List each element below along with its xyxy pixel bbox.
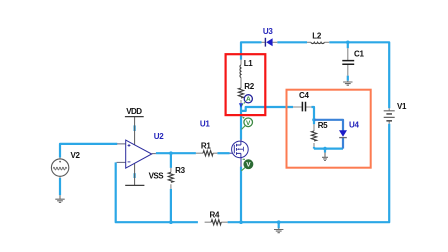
label R1 [201,141,211,150]
svg-text:R2: R2 [244,82,254,91]
label R2 [244,82,254,91]
probe A current [242,95,253,106]
diode U4 [339,130,347,137]
wire diode to L2 [277,41,307,43]
svg-text:V: V [246,162,251,169]
label V2 [71,151,81,160]
node C1 junction [346,41,350,45]
wire bottom ground stub [277,220,281,228]
svg-text:V: V [246,120,251,127]
label U2 [154,132,164,141]
svg-text:A: A [246,96,251,103]
resistor R1 [196,151,218,156]
svg-text:C4: C4 [299,91,309,100]
label VDD [126,107,142,116]
wire V2 plus to op-amp [60,144,117,158]
wire VSS overlay [134,173,136,178]
ground C1 [343,81,352,85]
inductor L2 [307,42,329,43]
svg-text:L2: L2 [312,31,322,40]
label C1 [354,49,364,58]
inductor L1 [240,60,241,88]
svg-text:L1: L1 [244,59,254,68]
probe arrow current direction [239,103,243,108]
VSS power rail [125,163,144,185]
wire drain node jog to C4 [241,107,293,111]
capacitor C1 [342,48,354,75]
resistor R4 [205,220,228,225]
wire op-amp output [156,152,196,154]
label U3 [263,27,273,36]
svg-text:R1: R1 [201,141,211,150]
wire ground stub orange box [324,149,326,153]
node output junction [169,151,173,155]
label U1 [200,120,210,129]
node R5 top junction [312,118,316,122]
probe V drain [242,117,253,130]
resistor R2 [238,78,243,105]
ground bottom rail [274,228,283,232]
label R5 [318,121,328,130]
wire U4 branch [314,120,343,149]
battery V1 [384,108,395,124]
wire C1 stub [347,42,349,81]
annotation orange box [287,90,371,168]
wire R3 branch [170,153,172,222]
svg-text:R3: R3 [175,166,185,175]
diode U3 [262,38,278,47]
label VSS [149,171,165,180]
label R4 [210,210,220,219]
wire L2 to top-right corner and V1 top [329,42,389,108]
label U4 [349,120,359,129]
label L2 [312,31,322,40]
wire feedback left vertical and bottom rail left [116,162,198,222]
label C4 [299,91,309,100]
svg-text:U4: U4 [349,120,359,129]
capacitor C4 [293,102,311,112]
probe V source [241,159,252,171]
wire top rail left corner [241,42,262,60]
node R3-rail junction [169,220,173,224]
label V1 [397,102,407,111]
svg-text:R5: R5 [318,121,328,130]
wire drain vertical [240,104,242,140]
ground R5 branch [322,153,328,161]
wire R5 stubs [313,120,315,149]
label L1 [244,59,254,68]
wire VDD overlay [134,125,136,131]
svg-text:U3: U3 [263,27,273,36]
node bottom loop ground junction [323,147,327,151]
resistor R5 [311,124,316,147]
annotation red box [226,54,266,115]
node source-rail junction [239,220,243,224]
svg-text:VSS: VSS [149,171,165,180]
wire R5-U4 bottom loop [314,148,343,150]
svg-text:VDD: VDD [126,107,142,116]
wire V2 top stub [59,178,61,195]
wire bottom rail right and V1 bottom [228,124,390,222]
op-amp U2 [117,140,156,168]
svg-text:V1: V1 [397,102,407,111]
wire R1 to gate [217,152,229,154]
wire C4 right corner down [311,107,314,120]
VDD power rail [125,117,144,145]
label R3 [175,166,185,175]
svg-text:C1: C1 [354,49,364,58]
source V2 [51,157,68,177]
svg-text:V2: V2 [71,151,81,160]
svg-text:R4: R4 [210,210,220,219]
resistor R3 [168,168,173,189]
svg-text:U2: U2 [154,132,164,141]
wire MOSFET source down [240,167,242,223]
ground V2 [55,195,64,202]
svg-text:U1: U1 [200,120,210,129]
MOSFET U1 [230,139,249,167]
